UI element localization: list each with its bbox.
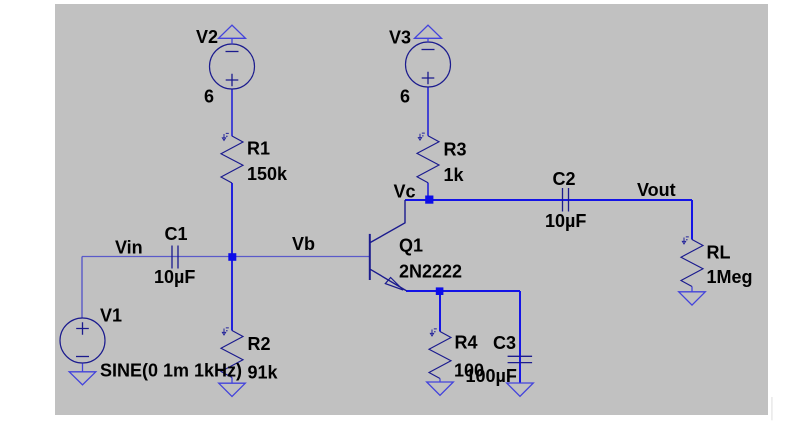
Q1 emitter lead xyxy=(370,269,406,291)
svg-text:91k: 91k xyxy=(248,363,279,383)
V3 minus sign xyxy=(422,49,435,51)
svg-text:C2: C2 xyxy=(553,169,576,189)
V2 minus sign xyxy=(226,51,239,53)
wire V1 vertical xyxy=(81,257,83,319)
voltage source V2 circle xyxy=(210,44,255,89)
svg-text:100µF: 100µF xyxy=(466,366,517,386)
RL stub to ground xyxy=(691,287,693,292)
V1 plus sign xyxy=(76,322,89,335)
ground below V1 xyxy=(69,364,96,385)
svg-text:C3: C3 xyxy=(493,333,516,353)
svg-text:150k: 150k xyxy=(247,164,288,184)
Q1 emitter arrowhead xyxy=(385,278,403,291)
scrollbar remnant bottom right xyxy=(771,397,773,420)
flipped ground above V2 xyxy=(219,25,246,44)
svg-text:Vout: Vout xyxy=(637,180,676,200)
ground below R2 xyxy=(219,383,246,396)
svg-text:R1: R1 xyxy=(247,139,270,159)
capacitor C1 xyxy=(172,246,178,269)
R4 pin marker xyxy=(430,329,436,336)
R2 pin marker xyxy=(222,328,228,335)
svg-text:R2: R2 xyxy=(248,334,271,354)
svg-text:V3: V3 xyxy=(389,28,411,48)
ground below C3 xyxy=(507,383,534,396)
junction node Vc xyxy=(425,196,433,204)
resistor RL xyxy=(681,240,703,287)
wire Vin horizontal xyxy=(82,256,370,258)
wire C3 corner down to C3 top plate xyxy=(519,291,521,383)
svg-text:SINE(0 1m 1kHz): SINE(0 1m 1kHz) xyxy=(100,361,242,381)
svg-text:1Meg: 1Meg xyxy=(707,267,753,287)
svg-text:6: 6 xyxy=(204,87,214,107)
svg-text:6: 6 xyxy=(400,87,410,107)
capacitor C2 xyxy=(563,188,569,212)
wire emitter to C3 corner xyxy=(406,290,520,292)
wire R1 to Vb junction xyxy=(231,183,233,257)
svg-text:Vc: Vc xyxy=(394,182,416,202)
wire Vc horizontal xyxy=(405,199,692,201)
svg-text:Vin: Vin xyxy=(115,238,143,258)
capacitor C3 xyxy=(508,356,532,362)
svg-text:V1: V1 xyxy=(100,306,122,326)
voltage source V3 circle xyxy=(406,42,451,87)
ground below R4 xyxy=(427,382,454,395)
svg-text:2N2222: 2N2222 xyxy=(399,262,462,282)
svg-text:10µF: 10µF xyxy=(545,211,586,231)
V1 minus sign xyxy=(76,356,89,358)
svg-text:10µF: 10µF xyxy=(154,267,195,287)
svg-text:R3: R3 xyxy=(444,140,467,160)
resistor R3 xyxy=(417,136,439,183)
Q1 collector lead xyxy=(370,200,405,243)
svg-text:V2: V2 xyxy=(196,27,218,47)
RL pin marker xyxy=(682,237,688,244)
junction node emitter/R4 xyxy=(436,287,444,295)
svg-text:RL: RL xyxy=(707,243,731,263)
svg-text:Q1: Q1 xyxy=(399,236,423,256)
svg-text:C1: C1 xyxy=(165,224,188,244)
svg-text:1k: 1k xyxy=(444,165,465,185)
transistor Q1 base bar xyxy=(369,234,371,280)
svg-text:R4: R4 xyxy=(455,333,478,353)
resistor R2 xyxy=(221,331,243,378)
junction node Vb xyxy=(228,253,236,261)
voltage source V1 circle xyxy=(60,318,105,363)
resistor R4 xyxy=(429,332,451,379)
R2 stub to ground xyxy=(231,378,233,384)
wire V3 to R3 xyxy=(427,87,429,136)
V2 plus sign xyxy=(226,74,239,87)
wire Vout down to RL xyxy=(691,200,693,240)
resistor R1 xyxy=(221,136,243,183)
svg-text:Vb: Vb xyxy=(292,234,315,254)
wire emitter junction to R4 xyxy=(439,291,441,332)
wire Vb junction to R2 xyxy=(231,257,233,331)
ground below RL xyxy=(679,292,706,305)
V3 plus sign xyxy=(422,72,435,85)
R3 pin marker xyxy=(418,133,424,140)
R1 pin marker xyxy=(222,133,228,140)
flipped ground above V3 xyxy=(415,25,442,42)
R4 stub to ground xyxy=(439,379,441,383)
wire V2 to R1 xyxy=(231,90,233,137)
wire R3 to Vc junction xyxy=(427,183,429,200)
